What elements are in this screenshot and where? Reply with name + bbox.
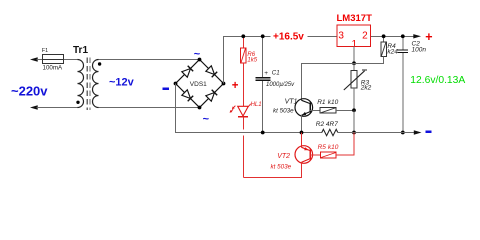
transistor VT1: [273, 99, 313, 117]
svg-text:+: +: [264, 70, 268, 77]
resistor R6: [241, 36, 258, 106]
resistor R1: [310, 99, 354, 113]
svg-text:VT1: VT1: [285, 99, 298, 106]
node: bridge vertex dots: [174, 58, 226, 110]
wire: bottom rail right section: [338, 132, 415, 134]
node: junction dot R6 top: [241, 34, 245, 38]
wire: mains bottom lead with left arrow: [30, 105, 78, 109]
svg-text:~12v: ~12v: [109, 77, 135, 89]
svg-text:k10: k10: [328, 99, 339, 106]
node: junction dot adj: [352, 61, 356, 65]
svg-text:HL1: HL1: [251, 102, 262, 108]
wire: red bottom run to VT2 collector: [243, 163, 301, 178]
svg-text:R1: R1: [317, 99, 326, 106]
transistor VT2: [271, 133, 313, 178]
node: output minus label: [426, 130, 432, 132]
svg-text:~220v: ~220v: [11, 83, 48, 98]
svg-text:12.6v/0.13A: 12.6v/0.13A: [410, 75, 465, 86]
svg-text:+16.5v: +16.5v: [273, 32, 304, 43]
wire: secondary bottom to bridge: [99, 107, 200, 109]
wire: LM317 output to right: [371, 35, 414, 37]
wire: node A down to rail: [353, 110, 355, 132]
node: junction dot rail right of R2: [352, 131, 356, 135]
svg-text:kt 503e: kt 503e: [271, 163, 292, 170]
LED HL1: [230, 102, 262, 117]
resistor R5: [310, 133, 354, 158]
diode: bridge left-bottom: [182, 90, 193, 101]
resistor R2: [316, 121, 338, 136]
node: junction dot emitters: [300, 131, 304, 135]
svg-text:3: 3: [338, 30, 344, 41]
svg-text:k10: k10: [328, 144, 339, 151]
wire: bridge plus up to top rail: [224, 36, 271, 83]
resistor R3 (variable): [344, 63, 372, 110]
svg-text:k24: k24: [387, 48, 398, 55]
svg-text:R5: R5: [318, 144, 327, 151]
transformer Tr1: [73, 45, 101, 110]
node: junction dot R4 top: [382, 34, 386, 38]
svg-text:~: ~: [203, 113, 210, 125]
bridge rectifier VDS1: [176, 60, 224, 108]
capacitor C2: [398, 36, 427, 132]
node: junction dot C2 top: [401, 34, 405, 38]
wire: top rail to LM317: [308, 35, 338, 37]
wire: secondary top to bridge: [99, 59, 200, 61]
wire: VT1 collector to adj node: [302, 63, 355, 100]
svg-text:+: +: [232, 80, 239, 92]
node: junction dot node A: [352, 108, 356, 112]
svg-text:2: 2: [362, 30, 368, 41]
svg-text:Tr1: Tr1: [73, 45, 88, 56]
svg-text:1000µ/25v: 1000µ/25v: [266, 82, 295, 88]
svg-text:R2 4R7: R2 4R7: [316, 121, 338, 128]
wire: mains top lead with left arrow: [30, 57, 78, 61]
svg-text:100n: 100n: [412, 47, 427, 54]
node: bridge minus label: [163, 88, 169, 90]
svg-text:VT2: VT2: [277, 153, 290, 160]
capacitor C1: [255, 36, 295, 132]
svg-text:2k2: 2k2: [360, 84, 372, 91]
svg-text:~: ~: [194, 48, 201, 60]
node: junction dot C1 bottom: [261, 131, 265, 135]
wire: output minus arrow: [414, 130, 422, 134]
diode: bridge bottom-right: [206, 90, 217, 101]
svg-text:+: +: [425, 30, 432, 44]
svg-text:C1: C1: [272, 70, 280, 77]
diode: bridge left-top: [182, 66, 193, 77]
node: junction dot C2 bottom: [401, 131, 405, 135]
svg-text:F1: F1: [42, 48, 48, 54]
wire: LM317 adj pin down: [353, 46, 355, 63]
svg-text:1k5: 1k5: [247, 57, 257, 63]
svg-text:100mA: 100mA: [43, 64, 63, 71]
svg-text:LM317T: LM317T: [337, 13, 373, 24]
svg-text:kt 503e: kt 503e: [273, 107, 294, 114]
wire: bridge minus down to bottom rail: [176, 84, 322, 133]
diode: bridge top-right: [206, 66, 217, 77]
wire: LED cathode down crossing rail: [242, 117, 244, 178]
resistor R4: [354, 36, 398, 63]
fuse F1: [42, 48, 64, 72]
wire: VT1 emitter to rail: [301, 115, 303, 132]
wire: output plus arrow: [413, 34, 421, 38]
op-amp U1 regulator LM317T: [337, 13, 373, 50]
node: junction dot C1 top: [261, 34, 265, 38]
svg-text:VDS1: VDS1: [190, 81, 207, 88]
